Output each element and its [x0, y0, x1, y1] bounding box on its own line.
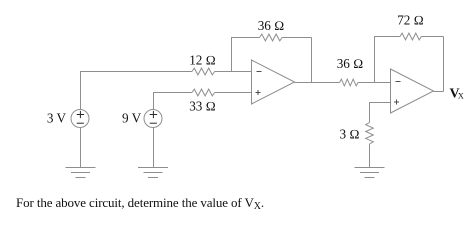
resistor 12 ohm: [192, 68, 215, 75]
V2 minus sign: [150, 122, 157, 124]
U1 minus label: [257, 71, 262, 73]
V1 plus sign: [77, 111, 84, 118]
wire R12 to op-amp U1 inverting input: [215, 71, 251, 73]
wire U2 feedback right leg: [443, 37, 445, 92]
wire V1 top vertical: [80, 72, 82, 110]
wire U1 output: [295, 82, 340, 84]
wire from plus input down to R3: [369, 103, 371, 123]
voltage source V1 3V: [71, 110, 89, 128]
wire U2 feedback top right segment: [421, 36, 443, 38]
U1 plus label: [256, 90, 261, 95]
resistor 33 ohm: [192, 89, 215, 96]
wire U1 feedback right leg: [311, 38, 313, 83]
resistor 72 ohm feedback: [400, 33, 421, 40]
ground below V1: [66, 168, 96, 178]
V1 minus sign: [77, 122, 84, 124]
wire feedback top left segment: [232, 37, 260, 39]
wire V2 to R33: [153, 92, 192, 94]
ground below R3: [355, 168, 385, 178]
wire U1 feedback left leg: [231, 37, 233, 72]
op-amp U2: [391, 69, 434, 113]
U2 minus label: [396, 81, 401, 83]
wire R36 series to op-amp U2 inverting input: [358, 82, 390, 84]
svg-text:12 Ω: 12 Ω: [189, 53, 216, 68]
resistor 36 ohm feedback: [260, 34, 283, 41]
svg-text:For the above circuit, determi: For the above circuit, determine the val…: [16, 195, 264, 212]
wire V1 to R12: [80, 71, 192, 73]
resistor 3 ohm: [366, 123, 374, 145]
svg-text:36 Ω: 36 Ω: [258, 18, 285, 33]
wire U2 feedback top left segment: [375, 36, 401, 38]
wire R3 to ground: [369, 144, 371, 167]
svg-text:3 V: 3 V: [47, 110, 67, 125]
svg-text:9 V: 9 V: [122, 110, 142, 125]
voltage source V2 9V: [144, 110, 162, 128]
ground below V2: [138, 168, 168, 178]
svg-text:33 Ω: 33 Ω: [189, 98, 216, 113]
svg-text:3 Ω: 3 Ω: [339, 126, 359, 141]
wire feedback top right segment: [282, 37, 312, 39]
wire V2 bottom to ground: [153, 128, 155, 168]
resistor 36 ohm series: [340, 79, 359, 86]
U2 plus label: [394, 100, 399, 105]
wire U2 output to node Vx: [434, 91, 444, 93]
op-amp U1: [252, 60, 295, 104]
wire V2 top vertical: [153, 93, 155, 110]
wire U2 non-inverting input: [369, 102, 390, 104]
wire U2 feedback left leg: [374, 36, 376, 83]
V2 plus sign: [150, 111, 157, 118]
wire R33 to op-amp U1 non-inverting input: [215, 92, 251, 94]
svg-text:36 Ω: 36 Ω: [337, 56, 364, 71]
wire V1 bottom to ground: [80, 128, 82, 168]
svg-text:72 Ω: 72 Ω: [397, 12, 424, 27]
